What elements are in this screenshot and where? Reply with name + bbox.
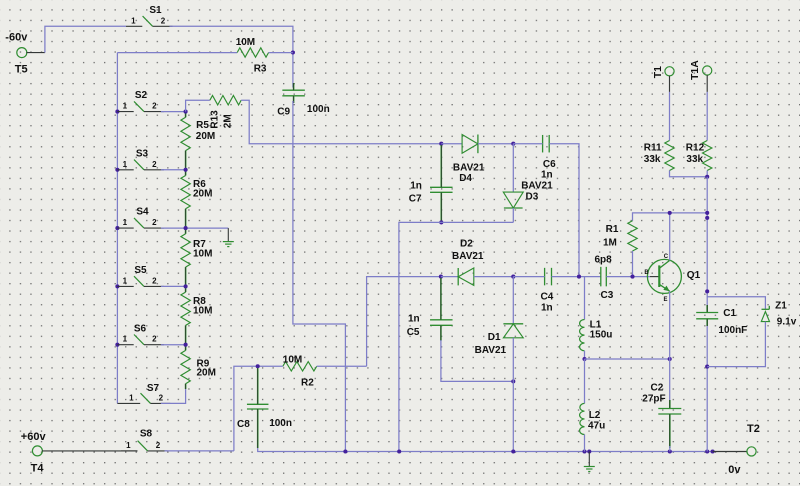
wire bbox=[441, 340, 513, 381]
wire bbox=[440, 145, 442, 187]
switch S3 bbox=[117, 148, 163, 169]
svg-text:2: 2 bbox=[152, 276, 157, 285]
svg-text:D4: D4 bbox=[459, 173, 472, 184]
svg-text:R11: R11 bbox=[644, 142, 662, 153]
junction bbox=[705, 289, 709, 293]
resistor R2 bbox=[283, 354, 317, 388]
svg-text:2: 2 bbox=[152, 102, 157, 111]
wire bbox=[669, 446, 671, 452]
wire bbox=[186, 100, 210, 111]
net label +60v bbox=[21, 431, 47, 443]
junction bbox=[184, 284, 188, 288]
junction bbox=[397, 449, 401, 453]
svg-text:S5: S5 bbox=[134, 265, 147, 276]
wire bbox=[241, 100, 441, 144]
svg-text:1M: 1M bbox=[603, 238, 617, 249]
wire bbox=[293, 96, 295, 103]
wire bbox=[513, 143, 542, 145]
svg-text:S7: S7 bbox=[147, 383, 160, 394]
svg-text:1: 1 bbox=[131, 16, 136, 25]
switch S2 bbox=[117, 90, 163, 111]
wire bbox=[606, 276, 650, 278]
wire bbox=[512, 381, 514, 451]
svg-text:1n: 1n bbox=[541, 169, 553, 180]
capacitor C5 bbox=[407, 313, 453, 338]
capacitor C9 bbox=[277, 90, 329, 117]
pin T1A bbox=[706, 75, 708, 92]
resistor R3 bbox=[236, 37, 269, 75]
wire bbox=[552, 276, 601, 278]
wire bbox=[669, 414, 671, 448]
svg-text:2: 2 bbox=[156, 441, 161, 450]
svg-text:9.1v: 9.1v bbox=[777, 316, 797, 327]
svg-text:C2: C2 bbox=[651, 383, 664, 394]
switch S6 bbox=[117, 323, 163, 344]
wire bbox=[669, 213, 671, 261]
svg-text:T1: T1 bbox=[652, 66, 664, 78]
junction bbox=[343, 449, 347, 453]
svg-text:C: C bbox=[664, 254, 669, 260]
wire bbox=[706, 171, 708, 177]
svg-text:C3: C3 bbox=[601, 290, 614, 301]
wire bbox=[185, 267, 187, 292]
svg-text:C4: C4 bbox=[541, 292, 554, 303]
wire bbox=[706, 319, 708, 326]
terminal T1 bbox=[652, 66, 674, 78]
wire bbox=[669, 291, 671, 400]
svg-text:E: E bbox=[663, 297, 667, 303]
svg-text:2: 2 bbox=[161, 16, 166, 25]
svg-text:C5: C5 bbox=[407, 327, 420, 338]
wire bbox=[269, 52, 293, 54]
svg-text:S8: S8 bbox=[140, 428, 153, 439]
capacitor C6 bbox=[541, 135, 556, 180]
svg-text:S3: S3 bbox=[136, 148, 149, 159]
svg-text:BAV21: BAV21 bbox=[452, 251, 484, 262]
wire bbox=[440, 278, 442, 320]
wire bbox=[161, 389, 186, 403]
svg-text:2: 2 bbox=[152, 335, 157, 344]
svg-text:T5: T5 bbox=[15, 63, 28, 75]
wire bbox=[584, 359, 586, 403]
resistor R7 bbox=[181, 234, 213, 267]
svg-text:1: 1 bbox=[123, 102, 128, 111]
wire bbox=[161, 111, 186, 113]
wire bbox=[367, 277, 441, 367]
resistor R1 bbox=[603, 221, 637, 251]
junction bbox=[256, 364, 260, 368]
svg-text:R12: R12 bbox=[686, 142, 705, 153]
svg-text:1: 1 bbox=[126, 441, 131, 450]
capacitor C1 bbox=[696, 308, 747, 336]
junction bbox=[705, 216, 709, 220]
svg-text:R1: R1 bbox=[606, 224, 619, 235]
junction bbox=[184, 226, 188, 230]
switch S7 bbox=[117, 383, 170, 403]
junction bbox=[115, 110, 119, 114]
svg-text:R5: R5 bbox=[196, 120, 209, 131]
wire bbox=[707, 322, 765, 367]
wire bbox=[706, 92, 708, 141]
svg-text:C9: C9 bbox=[277, 106, 290, 117]
resistor R5 bbox=[181, 117, 215, 150]
svg-text:2: 2 bbox=[152, 160, 157, 169]
svg-text:1: 1 bbox=[129, 393, 134, 402]
switch S4 bbox=[117, 207, 163, 228]
terminal T2 bbox=[747, 423, 760, 456]
wire bbox=[585, 358, 670, 360]
svg-text:S6: S6 bbox=[134, 323, 147, 334]
wire bbox=[161, 169, 186, 171]
junction bbox=[511, 379, 515, 383]
switch S5 bbox=[117, 265, 163, 286]
svg-text:R13: R13 bbox=[210, 110, 221, 129]
junction bbox=[511, 142, 515, 146]
inductor L1 bbox=[580, 320, 613, 351]
junction bbox=[668, 211, 672, 215]
svg-text:100n: 100n bbox=[307, 104, 330, 115]
junction bbox=[582, 449, 586, 453]
svg-text:B: B bbox=[644, 270, 649, 276]
svg-text:1: 1 bbox=[123, 160, 128, 169]
resistor R11 bbox=[644, 141, 674, 171]
wire bbox=[116, 53, 118, 404]
svg-text:150u: 150u bbox=[590, 330, 613, 341]
svg-text:S1: S1 bbox=[149, 5, 162, 16]
resistor R13 bbox=[210, 96, 242, 129]
svg-text:47u: 47u bbox=[588, 420, 605, 431]
wire bbox=[161, 344, 186, 346]
resistor R9 bbox=[181, 350, 216, 383]
wire bbox=[185, 384, 187, 389]
junction bbox=[115, 343, 119, 347]
wire bbox=[670, 171, 708, 177]
wire bbox=[669, 400, 671, 409]
svg-text:27pF: 27pF bbox=[642, 394, 665, 405]
wire bbox=[440, 325, 442, 341]
wire bbox=[317, 365, 367, 367]
wire bbox=[185, 325, 187, 350]
junction bbox=[439, 275, 443, 279]
wire bbox=[258, 448, 713, 452]
terminal T1A bbox=[689, 60, 712, 80]
wire bbox=[669, 92, 671, 141]
svg-text:BAV21: BAV21 bbox=[453, 163, 485, 174]
svg-text:T1A: T1A bbox=[689, 60, 701, 80]
svg-text:Z1: Z1 bbox=[775, 300, 787, 311]
wire bbox=[706, 326, 708, 452]
pin T4 bbox=[42, 450, 138, 452]
svg-text:C8: C8 bbox=[237, 419, 250, 430]
wire bbox=[706, 305, 708, 313]
svg-text:20M: 20M bbox=[193, 189, 212, 200]
svg-text:10M: 10M bbox=[193, 248, 212, 259]
wire bbox=[633, 213, 708, 221]
transistor Q1 bbox=[644, 254, 700, 303]
svg-text:T4: T4 bbox=[31, 463, 45, 475]
capacitor C8 bbox=[237, 404, 292, 430]
junction bbox=[184, 168, 188, 172]
capacitor C3 bbox=[595, 255, 614, 302]
junction bbox=[115, 226, 119, 230]
junction bbox=[439, 220, 443, 224]
svg-text:R3: R3 bbox=[254, 64, 267, 75]
svg-text:1n: 1n bbox=[541, 303, 553, 314]
junction bbox=[511, 449, 515, 453]
junction bbox=[668, 449, 672, 453]
svg-text:33k: 33k bbox=[686, 154, 703, 165]
wire bbox=[161, 227, 228, 229]
svg-text:10M: 10M bbox=[193, 306, 212, 317]
svg-text:S4: S4 bbox=[136, 207, 149, 218]
wire bbox=[234, 366, 283, 451]
svg-text:1n: 1n bbox=[410, 180, 422, 191]
junction bbox=[291, 50, 295, 54]
svg-text:100nF: 100nF bbox=[718, 325, 747, 336]
wire bbox=[45, 26, 126, 52]
junction bbox=[511, 275, 515, 279]
svg-text:0v: 0v bbox=[728, 464, 741, 476]
wire bbox=[584, 435, 586, 452]
svg-text:-60v: -60v bbox=[5, 32, 28, 44]
junction bbox=[587, 449, 591, 453]
switch S8 bbox=[121, 428, 168, 451]
inductor L2 bbox=[580, 403, 606, 434]
wire bbox=[706, 177, 708, 305]
diode Z1 bbox=[761, 300, 796, 327]
net label 0v bbox=[728, 464, 741, 476]
junction bbox=[630, 275, 634, 279]
junction bbox=[668, 357, 672, 361]
svg-text:C7: C7 bbox=[409, 194, 422, 205]
wire bbox=[161, 285, 186, 287]
wire bbox=[185, 151, 187, 176]
junction bbox=[705, 211, 709, 215]
wire bbox=[257, 368, 259, 404]
svg-text:D1: D1 bbox=[488, 332, 501, 343]
wire bbox=[549, 144, 579, 277]
svg-text:20M: 20M bbox=[197, 367, 216, 378]
svg-text:S2: S2 bbox=[135, 90, 148, 101]
terminal T5 bbox=[15, 48, 28, 76]
wire bbox=[165, 450, 234, 452]
wire bbox=[293, 83, 295, 90]
junction bbox=[115, 284, 119, 288]
svg-text:1n: 1n bbox=[408, 313, 420, 324]
ground bbox=[223, 228, 234, 247]
capacitor C4 bbox=[541, 268, 554, 314]
junction bbox=[115, 168, 119, 172]
svg-text:10M: 10M bbox=[283, 354, 302, 365]
svg-text:D2: D2 bbox=[460, 239, 473, 250]
resistor R12 bbox=[686, 141, 712, 171]
capacitor C7 bbox=[409, 180, 453, 204]
junction bbox=[705, 449, 709, 453]
resistor R6 bbox=[181, 176, 213, 209]
capacitor C2 bbox=[642, 383, 681, 415]
ground bbox=[584, 452, 595, 472]
pin Q1 base bbox=[650, 276, 659, 278]
svg-text:1: 1 bbox=[123, 276, 128, 285]
junction bbox=[582, 357, 586, 361]
svg-text:20M: 20M bbox=[196, 131, 215, 142]
junction bbox=[705, 365, 709, 369]
switch S1 bbox=[126, 5, 173, 26]
svg-text:1: 1 bbox=[123, 218, 128, 227]
diode D4 bbox=[441, 135, 513, 185]
svg-text:T2: T2 bbox=[747, 423, 760, 435]
wire bbox=[257, 409, 259, 448]
svg-text:D3: D3 bbox=[526, 191, 539, 202]
wire bbox=[185, 209, 187, 234]
wire bbox=[293, 101, 346, 452]
svg-text:33k: 33k bbox=[644, 154, 661, 165]
svg-text:10M: 10M bbox=[236, 37, 255, 48]
svg-text:2M: 2M bbox=[223, 114, 234, 128]
wire bbox=[584, 277, 586, 320]
pin T2 bbox=[713, 451, 747, 453]
wire bbox=[440, 192, 442, 221]
wire bbox=[707, 297, 765, 310]
wire bbox=[399, 222, 513, 451]
svg-text:2: 2 bbox=[159, 393, 164, 402]
svg-text:BAV21: BAV21 bbox=[521, 180, 553, 191]
wire bbox=[170, 26, 293, 87]
pin T1 bbox=[669, 76, 671, 92]
svg-text:2: 2 bbox=[152, 218, 157, 227]
svg-text:+60v: +60v bbox=[21, 431, 47, 443]
diode D2 bbox=[441, 239, 513, 286]
junction bbox=[711, 449, 715, 453]
terminal T4 bbox=[31, 446, 45, 475]
svg-text:R2: R2 bbox=[301, 378, 314, 389]
svg-text:C1: C1 bbox=[723, 308, 736, 319]
resistor R8 bbox=[181, 292, 213, 325]
svg-text:6p8: 6p8 bbox=[595, 255, 613, 266]
wire bbox=[513, 276, 544, 278]
junction bbox=[439, 142, 443, 146]
diode D3 bbox=[503, 144, 553, 223]
svg-text:BAV21: BAV21 bbox=[475, 345, 507, 356]
junction bbox=[184, 343, 188, 347]
svg-text:100n: 100n bbox=[269, 418, 292, 429]
wire bbox=[117, 52, 237, 54]
junction bbox=[705, 175, 709, 179]
diode D1 bbox=[475, 277, 524, 382]
net label -60v bbox=[5, 32, 28, 44]
junction bbox=[577, 275, 581, 279]
wire bbox=[584, 351, 586, 359]
pin T5 bbox=[26, 52, 45, 54]
wire bbox=[185, 112, 187, 118]
svg-text:1: 1 bbox=[123, 335, 128, 344]
junction bbox=[184, 110, 188, 114]
svg-text:Q1: Q1 bbox=[687, 270, 701, 281]
wire bbox=[632, 251, 634, 277]
